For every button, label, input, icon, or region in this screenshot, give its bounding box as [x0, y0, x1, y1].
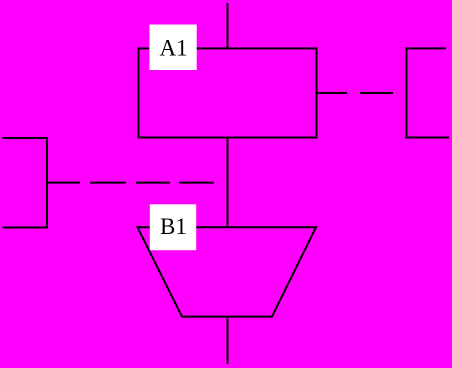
block B1 trapezoid — [138, 227, 317, 316]
wire: bottom vertical leaving trapezoid B1 — [227, 317, 229, 364]
wire: vertical between A1 bottom and trapezoid B1 top — [227, 138, 229, 228]
left partial block (open on left) — [3, 138, 48, 228]
wire: top vertical into block A1 — [227, 3, 229, 48]
right partial block (open on right) — [407, 48, 450, 137]
wire: dashed link from A1 right edge to right block — [317, 92, 394, 94]
wire: dashed link from left block to centre vertical wire — [47, 182, 214, 184]
svg-text:B1: B1 — [160, 214, 187, 239]
label B1 — [150, 204, 196, 250]
label A1 — [149, 25, 196, 71]
svg-text:A1: A1 — [160, 36, 188, 61]
block A1 rectangle — [139, 48, 317, 137]
